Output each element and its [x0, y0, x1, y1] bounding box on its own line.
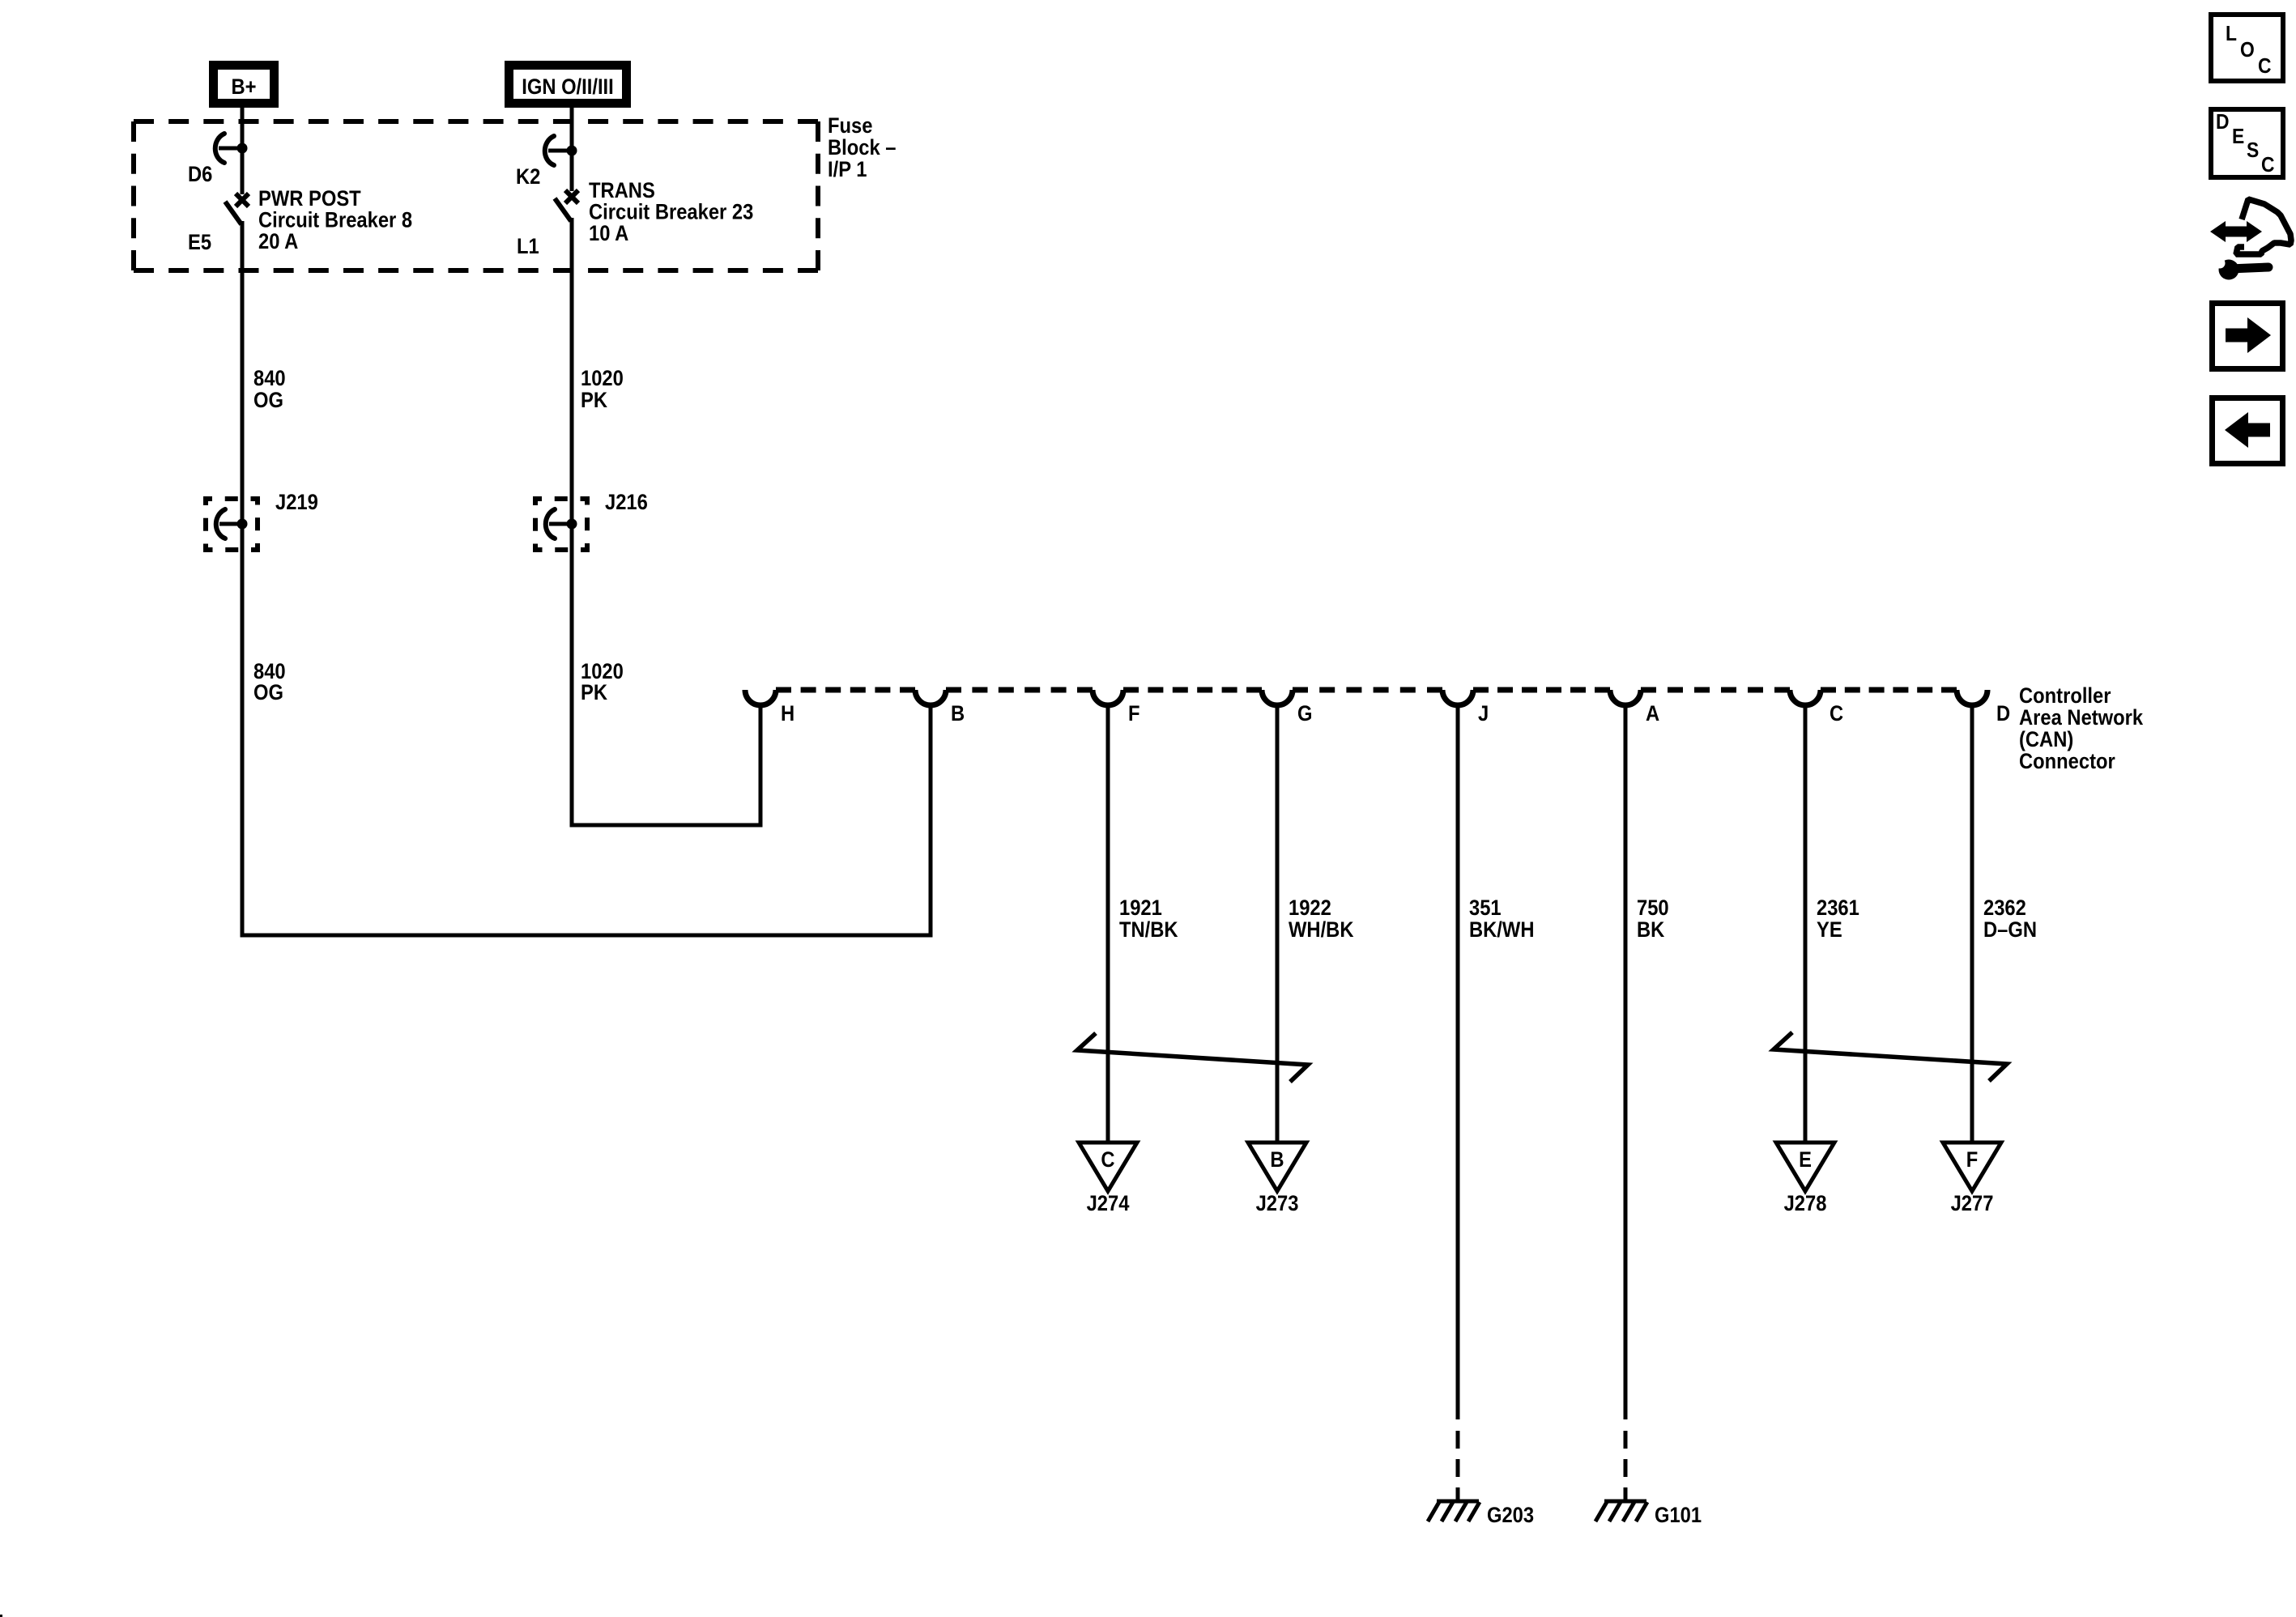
svg-text:F: F — [1966, 1148, 1979, 1172]
svg-text:F: F — [1128, 702, 1140, 726]
wire 351 BK/WH pin J — [1456, 705, 1460, 1419]
CAN pin D cup — [1957, 690, 1987, 705]
svg-text:J277: J277 — [1951, 1192, 1994, 1216]
twisted pair mark wires C D — [1774, 1032, 2007, 1081]
circuit breaker 23 contact X — [565, 190, 578, 203]
svg-text:TRANS: TRANS — [589, 179, 655, 203]
svg-text:BK: BK — [1637, 918, 1665, 943]
svg-text:E: E — [2232, 126, 2244, 149]
circuit breaker 8 junction dot — [237, 143, 248, 154]
circuit breaker 8 switch blade — [225, 202, 241, 224]
circuit breaker 23 switch blade — [555, 198, 571, 221]
svg-text:C: C — [2261, 154, 2275, 177]
svg-text:J219: J219 — [275, 491, 318, 515]
wire from IGN into fuse block — [570, 108, 574, 191]
CAN connector dashed line — [776, 687, 915, 693]
svg-text:OG: OG — [253, 389, 283, 413]
circuit breaker 8 label — [258, 187, 412, 254]
svg-text:BK/WH: BK/WH — [1469, 918, 1534, 943]
svg-text:H: H — [781, 702, 794, 726]
svg-text:Connector: Connector — [2019, 750, 2115, 774]
splice J216 tap wire — [549, 522, 572, 526]
svg-text:D–GN: D–GN — [1983, 918, 2037, 943]
circuit breaker 23 coil tap wire — [548, 149, 572, 153]
wire label 840 OG lower — [253, 660, 286, 705]
svg-text:E: E — [1799, 1148, 1812, 1172]
svg-text:Block –: Block – — [828, 136, 896, 160]
power feed box IGN O/II/III — [509, 66, 627, 104]
circuit breaker 23 junction dot — [567, 146, 577, 156]
svg-text:10 A: 10 A — [589, 222, 628, 246]
power feed box B+ — [214, 66, 275, 104]
splice J216 dot — [567, 519, 577, 530]
icon back arrow box — [2213, 398, 2283, 464]
wire label 1020 PK lower — [581, 660, 624, 705]
CAN pin G cup — [1262, 690, 1293, 705]
off-page connector J278 — [1776, 1143, 1834, 1191]
CAN pin H cup — [745, 690, 776, 705]
svg-text:2361: 2361 — [1817, 896, 1859, 921]
svg-text:O: O — [2240, 39, 2255, 62]
svg-text:Circuit Breaker 23: Circuit Breaker 23 — [589, 200, 753, 224]
svg-text:1020: 1020 — [581, 367, 624, 391]
svg-text:I/P 1: I/P 1 — [828, 158, 867, 182]
svg-text:TN/BK: TN/BK — [1119, 918, 1178, 943]
icon forward arrow box — [2213, 304, 2283, 369]
twisted pair mark wires F G — [1077, 1033, 1308, 1082]
splice J216 hook — [546, 509, 555, 538]
svg-text:Circuit Breaker 8: Circuit Breaker 8 — [258, 208, 412, 232]
circuit breaker 23 label — [589, 179, 753, 246]
wire 1922 WH/BK pin G — [1276, 705, 1280, 1143]
svg-text:351: 351 — [1469, 896, 1502, 921]
icon vehicle with arrow and wrench — [2210, 199, 2291, 280]
wire 1020 PK from breaker 23 to CAN pin H — [572, 218, 760, 825]
CAN pin J cup — [1442, 690, 1473, 705]
splice J219 hook — [216, 509, 225, 538]
svg-text:B: B — [951, 702, 965, 726]
wire label 1922 WH/BK — [1289, 896, 1354, 943]
off-page connector J277 — [1943, 1143, 2001, 1191]
fuse block label — [828, 114, 896, 182]
svg-text:Controller: Controller — [2019, 684, 2111, 709]
svg-text:20 A: 20 A — [258, 230, 298, 254]
svg-text:C: C — [1830, 702, 1843, 726]
page corner mark — [0, 1615, 2, 1617]
wire 840 OG from breaker 8 to CAN pin B — [242, 221, 931, 935]
svg-text:J278: J278 — [1784, 1192, 1827, 1216]
svg-text:J: J — [1478, 702, 1489, 726]
svg-text:PWR POST: PWR POST — [258, 187, 361, 211]
off-page connector J274 — [1079, 1143, 1137, 1191]
svg-text:L: L — [2226, 23, 2237, 46]
splice J216 dashed box — [535, 499, 587, 550]
circuit breaker 8 hook element — [215, 134, 224, 163]
icon DESC box — [2211, 109, 2283, 177]
svg-text:J273: J273 — [1256, 1192, 1299, 1216]
svg-text:YE: YE — [1817, 918, 1842, 943]
wire 750 BK pin A — [1624, 705, 1628, 1419]
circuit breaker 8 contact X — [236, 194, 249, 206]
wire label 840 OG upper — [253, 367, 286, 413]
svg-text:WH/BK: WH/BK — [1289, 918, 1354, 943]
svg-text:B+: B+ — [231, 75, 256, 100]
svg-text:D: D — [2216, 111, 2230, 134]
wire label 1020 PK upper — [581, 367, 624, 413]
svg-text:750: 750 — [1637, 896, 1669, 921]
wire label 351 BK/WH — [1469, 896, 1534, 943]
svg-text:G: G — [1297, 702, 1312, 726]
svg-text:(CAN): (CAN) — [2019, 728, 2073, 752]
svg-text:J274: J274 — [1087, 1192, 1130, 1216]
svg-text:1921: 1921 — [1119, 896, 1162, 921]
svg-text:OG: OG — [253, 681, 283, 705]
off-page connector J273 — [1248, 1143, 1306, 1191]
wire 1921 TN/BK pin F — [1106, 705, 1110, 1143]
fuse block dashed box — [134, 121, 818, 270]
svg-text:E5: E5 — [188, 231, 211, 255]
ground G203 — [1428, 1501, 1480, 1521]
CAN pin B cup — [915, 690, 946, 705]
CAN pin A cup — [1610, 690, 1641, 705]
icon LOC box — [2211, 15, 2283, 81]
CAN pin F cup — [1093, 690, 1123, 705]
svg-text:B: B — [1270, 1148, 1284, 1172]
splice J219 dashed box — [206, 499, 258, 550]
circuit breaker 23 hook element — [545, 136, 554, 165]
svg-text:D6: D6 — [188, 163, 212, 187]
wire label 2362 D–GN — [1983, 896, 2037, 943]
CAN pin C cup — [1790, 690, 1821, 705]
svg-text:D: D — [1996, 702, 2010, 726]
wire 2361 YE pin C — [1804, 705, 1808, 1143]
ground G101 — [1595, 1501, 1647, 1521]
svg-text:J216: J216 — [605, 491, 648, 515]
wire label 2361 YE — [1817, 896, 1859, 943]
wire from B+ into fuse block — [241, 108, 245, 194]
svg-text:A: A — [1646, 702, 1659, 726]
splice J219 tap wire — [219, 522, 242, 526]
svg-text:S: S — [2247, 139, 2259, 163]
svg-text:IGN O/II/III: IGN O/II/III — [522, 75, 613, 100]
svg-text:Fuse: Fuse — [828, 114, 872, 138]
svg-text:Area Network: Area Network — [2019, 706, 2144, 730]
svg-text:PK: PK — [581, 389, 608, 413]
circuit breaker 8 coil tap wire — [219, 147, 242, 151]
CAN connector name — [2019, 684, 2144, 774]
svg-text:K2: K2 — [516, 165, 540, 189]
svg-text:C: C — [2258, 55, 2272, 79]
svg-text:840: 840 — [253, 367, 286, 391]
svg-text:1922: 1922 — [1289, 896, 1331, 921]
svg-text:C: C — [1101, 1148, 1114, 1172]
svg-text:G203: G203 — [1487, 1504, 1534, 1528]
svg-text:2362: 2362 — [1983, 896, 2026, 921]
svg-text:L1: L1 — [517, 235, 539, 259]
svg-text:G101: G101 — [1655, 1504, 1702, 1528]
svg-text:PK: PK — [581, 681, 608, 705]
wire label 1921 TN/BK — [1119, 896, 1178, 943]
splice J219 dot — [237, 519, 248, 530]
wire 2362 D-GN pin D — [1970, 705, 1974, 1143]
wire label 750 BK — [1637, 896, 1669, 943]
